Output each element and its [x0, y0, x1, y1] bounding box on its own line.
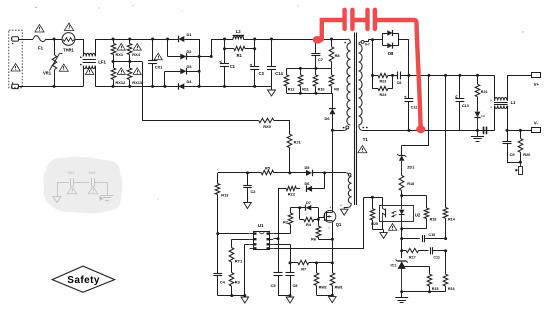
wire: IC1 ref row [405, 266, 430, 274]
svg-text:R4: R4 [306, 222, 312, 227]
node dots RX columns top [112, 38, 170, 41]
ground (U1/C4/R3) [241, 297, 249, 303]
wire: fb bottom row [402, 291, 446, 293]
svg-text:U1: U1 [258, 223, 264, 228]
node dot U2 out [400, 227, 403, 230]
resistor RX12 [111, 68, 126, 86]
svg-text:+: + [490, 106, 492, 110]
warning triangle (RX1) [117, 44, 125, 51]
diode D7 [300, 200, 319, 211]
resistor R13 [215, 173, 229, 234]
svg-text:R12: R12 [288, 88, 295, 92]
terminal V- [532, 120, 541, 132]
wire: top rail LF1 to bridge [95, 39, 178, 41]
wire: D5 row to aux pin [325, 173, 349, 175]
resistor R1 [225, 39, 255, 58]
resistor R4 [300, 208, 319, 227]
svg-text:Dc: Dc [481, 114, 485, 118]
node dot C10 right [444, 237, 447, 240]
ground (RW1/RW2) [329, 297, 337, 303]
svg-text:D5: D5 [305, 165, 311, 170]
node dots fb column [400, 237, 403, 252]
svg-text:R2: R2 [283, 219, 289, 224]
wire: U1 pin8 to R2 [274, 225, 291, 234]
node dot U1 pin1 row [216, 232, 219, 235]
node dot D7 left [298, 206, 301, 209]
svg-text:RX5: RX5 [263, 124, 271, 129]
wire: RW ground row [317, 295, 333, 297]
label T1 [363, 137, 369, 142]
wire: DC top rail left [211, 39, 233, 41]
primary pin 9 marker [343, 126, 349, 129]
node dots R1 [223, 47, 256, 50]
resistor R21 [475, 75, 487, 111]
node dots secondary row [427, 74, 479, 77]
svg-text:R16: R16 [448, 287, 455, 291]
wire: D8 to C12 column [399, 40, 409, 76]
resistor RW2 [314, 263, 327, 295]
resistor RX13 [127, 68, 143, 86]
aux pin marker [348, 173, 351, 176]
node dot C6/R7 [289, 261, 292, 264]
svg-text:F1: F1 [38, 46, 44, 51]
node dot gate [317, 218, 320, 221]
optocoupler U2 [380, 196, 421, 229]
wire: U2 left top pin [382, 197, 384, 201]
wire: row to ZD1 jog [402, 75, 429, 155]
capacitor C6 [286, 263, 299, 296]
greyed warning triangle 2 [88, 186, 97, 194]
svg-text:C12: C12 [411, 106, 418, 110]
svg-text:C9: C9 [510, 152, 516, 157]
PWM IC U1 [250, 223, 274, 249]
svg-text:THR1: THR1 [63, 48, 74, 53]
capacitor C3 [250, 49, 265, 87]
svg-text:RX4: RX4 [132, 52, 140, 57]
node dots RX columns bottom [112, 85, 167, 88]
svg-text:R3: R3 [235, 279, 241, 284]
ground (C5/C6) [286, 297, 294, 303]
wire: Vcc to U1 pin7 [274, 238, 279, 240]
diode D3 [165, 64, 200, 86]
svg-text:D3: D3 [187, 64, 193, 69]
resistor R12 [284, 68, 294, 93]
svg-text:L2: L2 [236, 29, 242, 34]
svg-text:D2: D2 [187, 49, 193, 54]
svg-text:R18: R18 [407, 182, 414, 186]
warning triangle (VR1) [59, 64, 68, 71]
wire: RJ1 to R5 row [289, 148, 291, 173]
wire: bottom rail to ground [199, 86, 271, 90]
ground (C2) [244, 203, 252, 209]
node dot Vcc [277, 237, 280, 240]
svg-text:R17: R17 [409, 256, 416, 260]
greyed ground left [53, 182, 61, 202]
svg-text:C11: C11 [433, 256, 440, 260]
svg-text:6-7: 6-7 [365, 43, 370, 47]
svg-text:D7: D7 [306, 200, 311, 205]
node dots mid rail [112, 60, 132, 63]
resistor R17 [402, 248, 429, 259]
wire: line input to fuse [18, 39, 33, 41]
wire: C9 R20 bottom row [507, 162, 520, 164]
resistor RX5 [259, 118, 274, 129]
svg-text:R14: R14 [448, 218, 456, 222]
svg-text:V-: V- [534, 120, 539, 125]
wire: drain vertical [332, 114, 334, 211]
svg-text:R24: R24 [380, 93, 388, 97]
wire: bridge right bus [199, 39, 201, 86]
wire: bottom rail input side [18, 86, 83, 88]
diode D1 [178, 32, 199, 42]
sense terminal [515, 162, 522, 174]
resistor RW1 [330, 263, 343, 295]
node dot C11 right [444, 249, 447, 252]
node dot RJ1 bottom [288, 171, 291, 174]
svg-text:CX1: CX1 [155, 65, 163, 70]
wire: R5 row to D5 [290, 172, 300, 174]
node dot source/R6 [331, 238, 334, 241]
node dots R23 [371, 74, 394, 77]
capacitor C13 [455, 75, 469, 130]
wire: U2 emitter to ground [372, 221, 383, 232]
warning triangle (T1) [358, 146, 367, 153]
svg-text:R20: R20 [523, 152, 530, 157]
svg-text:D6: D6 [325, 116, 331, 121]
greyed cap CX2 [57, 171, 74, 187]
wire: R22 to Vcc column [278, 189, 286, 239]
warning triangle (input) [11, 64, 20, 72]
transformer T1 secondary winding [359, 42, 368, 130]
input terminal pin top [11, 37, 18, 45]
resistor R10 [313, 68, 324, 93]
thermistor RT1 [229, 239, 249, 272]
svg-text:U2: U2 [415, 212, 421, 217]
wire: sec node down to snubber [372, 40, 374, 76]
node dots snubber bottom [299, 92, 318, 95]
resistor R20 [518, 130, 530, 162]
svg-text:D4: D4 [187, 79, 193, 84]
svg-text:C8: C8 [397, 81, 402, 85]
shunt regulator IC1 [391, 260, 408, 292]
capacitor C8 [393, 72, 409, 86]
svg-text:R25: R25 [371, 222, 378, 226]
resistor R9 [329, 68, 339, 93]
red marker highlight: Y-capacitor link [313, 10, 426, 133]
ground (U2/R25) [380, 233, 387, 239]
warning triangle (RX13) [133, 68, 141, 75]
node dot RW gnd [331, 294, 334, 297]
svg-text:R11: R11 [302, 88, 309, 92]
svg-text:C13: C13 [462, 104, 469, 108]
svg-text:CX1: CX1 [89, 171, 96, 175]
resistor R18 [399, 175, 414, 195]
capacitor C1 [220, 49, 236, 87]
svg-text:D8: D8 [388, 51, 394, 56]
svg-text:VR1: VR1 [43, 71, 52, 76]
capacitor C4 [213, 234, 225, 296]
diode D5 [300, 165, 324, 176]
resistor R25 [370, 197, 378, 230]
warning triangle (U2) [388, 224, 396, 231]
svg-text:RJ1: RJ1 [294, 139, 302, 144]
svg-text:C7: C7 [318, 57, 323, 62]
diode D6 (clamp) [325, 109, 336, 122]
resistor R16 [443, 251, 454, 292]
warning triangle (CX1) [154, 53, 162, 60]
capacitor C14 [267, 39, 284, 86]
node dot C5C6 gnd [289, 294, 292, 297]
LED D9 [474, 112, 485, 131]
wire: U1 pin5 long rail [274, 197, 383, 248]
node dot bridge output [210, 55, 213, 58]
resistor R24 [373, 75, 393, 96]
resistor R6 [311, 219, 332, 241]
wire: mid-rail down to RX5 row [142, 62, 259, 121]
capacitor C9 [503, 130, 516, 162]
svg-text:+: + [490, 99, 492, 103]
MOSFET Q1 [324, 205, 342, 229]
fuse F1 [33, 36, 46, 51]
svg-text:C5: C5 [271, 283, 277, 288]
capacitor CX1 [148, 39, 163, 86]
wire: U1 pin1 row [218, 233, 250, 235]
greyed warning triangle 1 [67, 186, 76, 194]
node dots DC rail [223, 38, 333, 41]
specks [35, 5, 523, 211]
svg-text:1: 1 [340, 203, 342, 207]
wire: RX5 to RJ1 [274, 120, 290, 134]
svg-text:R7: R7 [301, 266, 306, 271]
greyed cap CX1 [74, 171, 108, 187]
rectifier D8 (dual diode) [383, 30, 399, 56]
inductor L2 [233, 29, 244, 39]
warning triangle (RX4) [133, 44, 141, 51]
inductor L1 [490, 75, 516, 130]
wire: R5 row corner [218, 172, 261, 174]
wire: R5 to RJ1 node [274, 172, 290, 174]
wire: L1 to V- row [507, 106, 509, 130]
greyed-out removed sub-circuit highlight blob [43, 157, 122, 213]
line filter LF1 windings [80, 39, 107, 86]
resistor R8 [329, 39, 340, 68]
resistor R2 [283, 208, 293, 225]
wire: snubber bottom row [287, 93, 333, 95]
node dots R7 row [315, 261, 334, 264]
capacitor C11 [431, 247, 446, 259]
transformer T1 core [355, 33, 357, 206]
node dots bottom DC rail [223, 85, 256, 88]
wire: sec node to D8 box [373, 39, 383, 41]
cursor mark [100, 196, 104, 202]
ground (aux winding) [340, 209, 348, 215]
wire: Q1 source down [332, 222, 334, 263]
svg-text:R19: R19 [430, 218, 437, 222]
svg-text:C1: C1 [230, 64, 236, 69]
wire: secondary bottom rail [363, 130, 495, 132]
svg-text:R1: R1 [237, 53, 243, 58]
svg-text:V+: V+ [534, 82, 540, 87]
wire: U1 pin3 to ground [245, 244, 250, 295]
warning triangle (THR1) [64, 23, 73, 31]
capacitor C10 [402, 233, 446, 242]
svg-text:R23: R23 [380, 80, 387, 84]
node dot C2 top [246, 171, 249, 174]
wire: U1 ground row [218, 295, 245, 297]
svg-text:RW2: RW2 [319, 286, 327, 290]
resistor R15 [427, 274, 438, 292]
wire: U1 pin6 to C6 [274, 244, 291, 263]
output series element [484, 127, 487, 135]
warning triangle (LF1) [85, 68, 94, 75]
svg-text:D1: D1 [187, 32, 193, 37]
transformer T1 aux winding [348, 177, 351, 204]
svg-text:R8: R8 [335, 53, 341, 58]
diode D4 [178, 79, 199, 90]
node dots fb bottom [400, 290, 431, 293]
wire: bottom rail LF1 to bridge [95, 86, 178, 88]
terminal V+ [532, 73, 541, 88]
ground (secondary rail earth) [471, 130, 484, 141]
svg-text:RT1: RT1 [235, 259, 243, 264]
wire: aux bottom to ground [340, 203, 351, 209]
resistor R7 [290, 260, 317, 271]
transformer T1 primary winding [344, 42, 350, 125]
node dots bridge bus [198, 55, 201, 88]
capacitor C12 [404, 75, 417, 130]
svg-text:ZD1: ZD1 [407, 166, 414, 170]
warning triangle (RX12) [117, 68, 125, 75]
svg-text:C8: C8 [293, 283, 299, 288]
wire: V- row [507, 130, 532, 132]
resistor R14 [443, 75, 456, 238]
wire: fb column [401, 229, 403, 258]
AC input connector J1 (dashed box) [9, 30, 22, 88]
wire: R19 loop [402, 196, 427, 229]
wire: snubber top row [287, 68, 332, 70]
wire: snubber to D6 [332, 93, 334, 108]
svg-text:R13: R13 [221, 192, 229, 197]
node dot C12 top [407, 74, 410, 77]
node dots V- row [506, 129, 522, 132]
svg-text:D6: D6 [305, 181, 311, 186]
svg-text:RX12: RX12 [116, 80, 127, 85]
wire: secondary main row [409, 75, 495, 77]
node dot at VR1 bottom [53, 85, 56, 88]
capacitor C5 [271, 239, 283, 296]
Safety logo diamond [52, 266, 114, 292]
svg-text:RW1: RW1 [335, 286, 343, 290]
warning triangle (F1) [35, 25, 44, 33]
wire: to primary pin 9 [332, 129, 346, 131]
thermistor THR1 [62, 33, 75, 53]
resistor R22 [286, 186, 300, 196]
svg-text:C2: C2 [251, 189, 257, 194]
svg-text:R21: R21 [481, 90, 488, 94]
svg-text:T1: T1 [363, 137, 369, 142]
node dot D5-D6 junction [323, 171, 326, 174]
diode D6 (aux) [305, 181, 313, 192]
wire: fuse to THR1 [46, 39, 62, 41]
svg-text:C3: C3 [259, 71, 265, 76]
svg-text:Q1: Q1 [336, 222, 342, 227]
resistor R11 [298, 68, 309, 93]
diode D2 [168, 39, 200, 60]
svg-text:R6: R6 [311, 237, 317, 242]
node dots snubber top [299, 67, 318, 70]
wire: secondary pin to D8 node [364, 40, 372, 42]
svg-text:R15: R15 [432, 287, 439, 291]
node dots secondary rail [407, 129, 479, 132]
svg-text:Safety: Safety [67, 275, 100, 286]
wire: mid rail [113, 55, 142, 69]
svg-text:C10: C10 [428, 233, 435, 237]
wire: gate node [318, 208, 324, 220]
resistor R23 [373, 73, 393, 83]
wire: DC top rail to transformer [244, 39, 351, 43]
svg-text:LF1: LF1 [98, 59, 106, 64]
svg-text:C4: C4 [220, 279, 226, 284]
resistor R5 [261, 166, 273, 175]
node dot at VR1 top [53, 38, 56, 41]
secondary pin 6-7 marker [361, 40, 370, 46]
node dot sense [519, 161, 522, 164]
wire: D6 branch down [312, 173, 325, 189]
node dot R18 bottom [400, 194, 403, 197]
ground (IC1 earth) [395, 292, 408, 303]
greyed ground right (earth) [101, 182, 114, 200]
wire: L1 to V+ terminal [507, 75, 532, 101]
wire: R2 top to D7 node [290, 207, 299, 209]
svg-text:R22: R22 [288, 192, 296, 197]
node dot R25 top [371, 196, 374, 199]
capacitor C7 [311, 39, 323, 68]
svg-text:RX1: RX1 [116, 52, 124, 57]
ground (primary DC return) [268, 90, 276, 96]
resistor RJ1 [287, 134, 301, 147]
svg-text:CX2: CX2 [68, 171, 75, 175]
resistor RX1 [111, 39, 124, 57]
zener ZD1 [397, 154, 414, 175]
varistor VR1 [43, 39, 62, 86]
resistor RX4 [127, 39, 141, 57]
wire: bridge output jog [199, 39, 211, 57]
input terminal pin bottom [11, 82, 18, 88]
resistor R19 [424, 208, 436, 222]
node dot drain/primary pin [331, 129, 334, 132]
svg-text:R10: R10 [318, 88, 325, 92]
svg-text:IC1: IC1 [391, 264, 397, 268]
wire: C5 C6 ground row [278, 295, 290, 297]
node dots U1 ground row [230, 294, 246, 297]
svg-text:RX13: RX13 [132, 80, 143, 85]
svg-text:R5: R5 [265, 166, 271, 171]
svg-text:R9: R9 [334, 88, 339, 92]
svg-text:C14: C14 [275, 71, 283, 76]
resistor R3 [229, 273, 240, 296]
node dot secondary top [371, 38, 374, 41]
capacitor C2 [243, 173, 256, 203]
wire: THR1 to LF1 [75, 39, 83, 41]
svg-text:L1: L1 [511, 100, 517, 105]
